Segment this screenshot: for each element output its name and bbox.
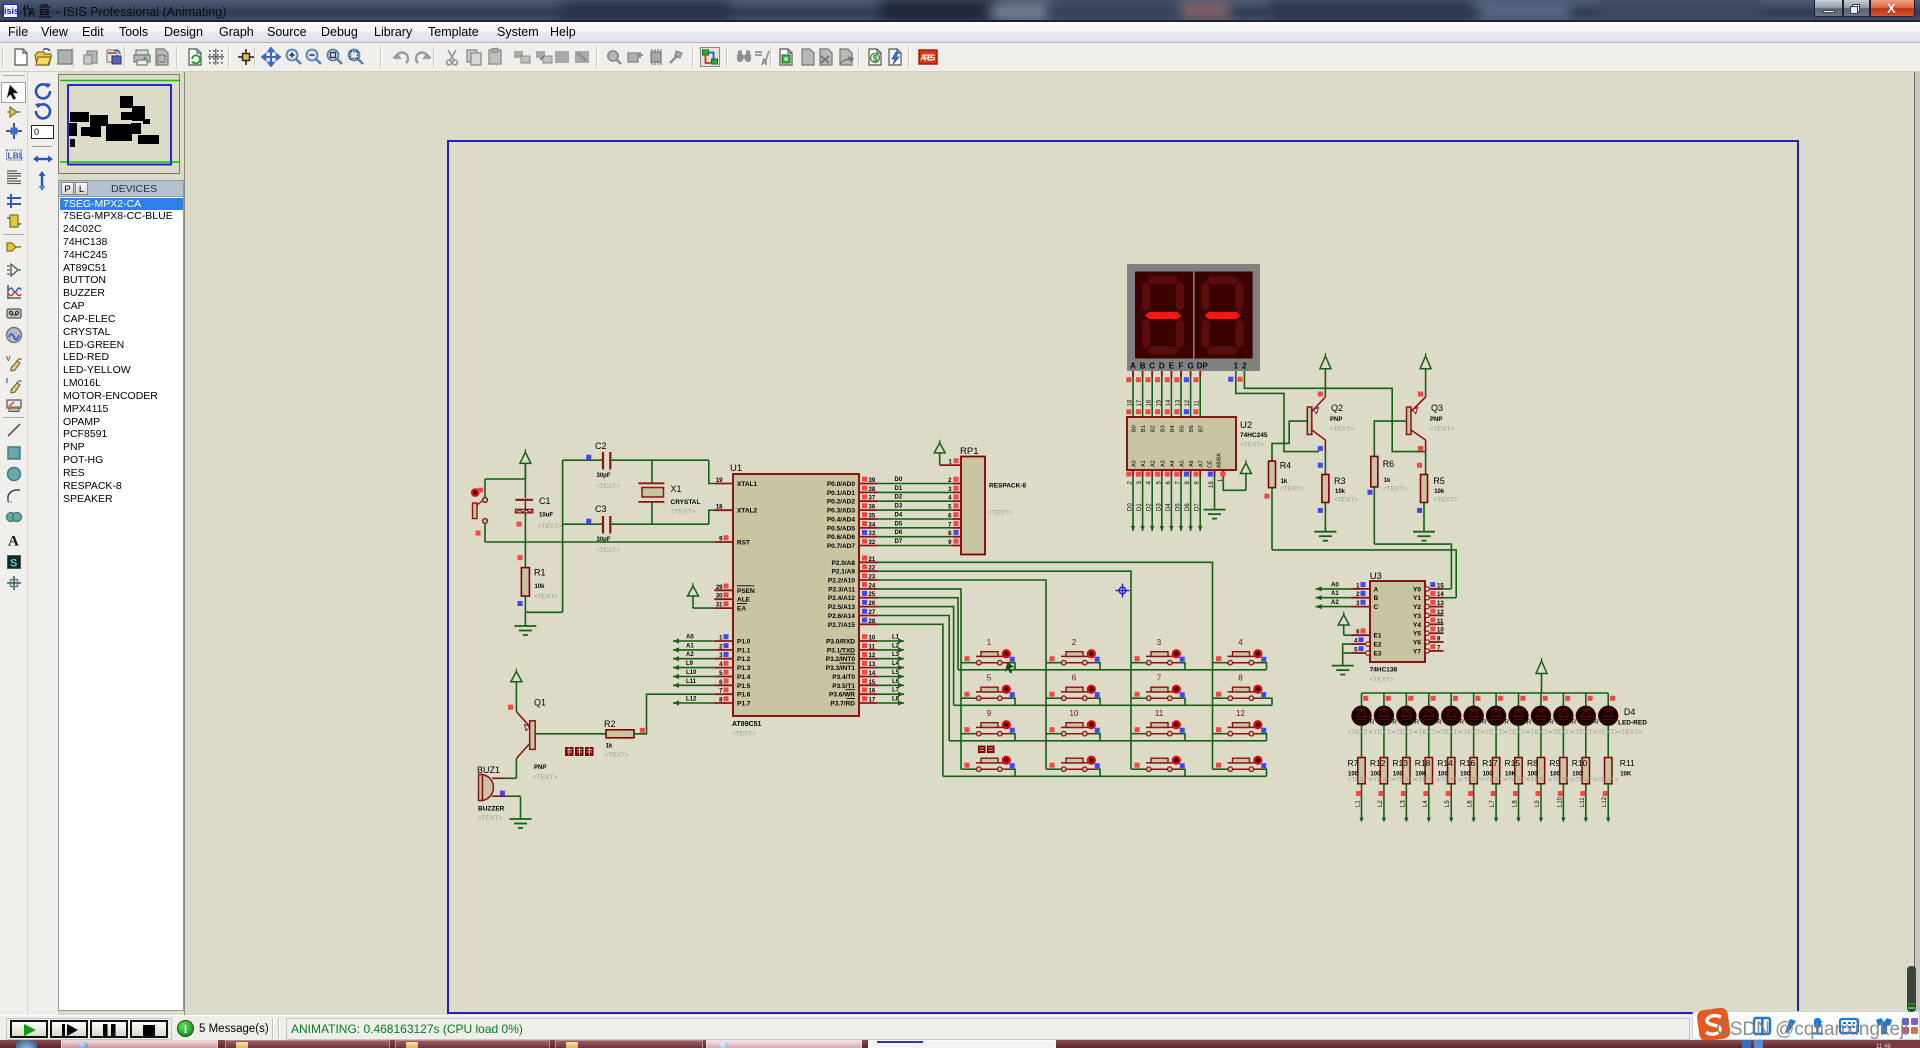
buffer U2 74HC245 body bbox=[1127, 417, 1252, 470]
svg-text:13: 13 bbox=[869, 662, 876, 668]
svg-text:<TEXT>: <TEXT> bbox=[478, 815, 502, 822]
svg-text:L3: L3 bbox=[1400, 800, 1406, 807]
svg-text:BUZ1: BUZ1 bbox=[477, 765, 500, 775]
svg-text:P0.7/AD7: P0.7/AD7 bbox=[827, 543, 856, 550]
svg-text:D: D bbox=[1159, 362, 1165, 371]
label C3 bbox=[595, 504, 620, 554]
svg-text:D5: D5 bbox=[1176, 503, 1182, 511]
svg-text:A: A bbox=[1374, 586, 1379, 593]
svg-text:37: 37 bbox=[869, 496, 876, 502]
svg-text:R15: R15 bbox=[1505, 758, 1521, 768]
svg-text:30pF: 30pF bbox=[597, 473, 611, 479]
svg-text:10: 10 bbox=[1437, 628, 1444, 634]
svg-text:28: 28 bbox=[869, 619, 876, 625]
svg-text:35: 35 bbox=[869, 514, 876, 520]
svg-text:B2: B2 bbox=[1151, 425, 1157, 432]
label X1 bbox=[671, 484, 701, 516]
svg-text:38: 38 bbox=[869, 487, 876, 493]
label R3 bbox=[1334, 476, 1358, 504]
power terminal VCC (reset) bbox=[520, 449, 531, 479]
svg-text:9: 9 bbox=[987, 709, 992, 718]
svg-text:R16: R16 bbox=[1460, 758, 1476, 768]
svg-text:11: 11 bbox=[869, 644, 876, 650]
svg-text:<TEXT>: <TEXT> bbox=[1348, 777, 1372, 784]
svg-text:30pF: 30pF bbox=[597, 537, 611, 543]
svg-text:EA: EA bbox=[737, 606, 746, 613]
label Q3 bbox=[1430, 403, 1454, 433]
svg-text:-R: -R bbox=[1525, 720, 1532, 726]
LED array labels bbox=[1348, 720, 1635, 784]
svg-text:10: 10 bbox=[869, 636, 876, 642]
svg-text:A5: A5 bbox=[1180, 460, 1186, 467]
svg-text:<TEXT>: <TEXT> bbox=[1460, 777, 1484, 784]
svg-text:D5: D5 bbox=[895, 521, 903, 527]
svg-text:-R: -R bbox=[1592, 720, 1599, 726]
svg-text:D3: D3 bbox=[1156, 503, 1162, 511]
svg-text:A3: A3 bbox=[1160, 460, 1166, 467]
svg-text:<TEXT>: <TEXT> bbox=[533, 774, 557, 781]
svg-text:P1.1: P1.1 bbox=[737, 647, 751, 654]
P3 net-label wires L1-L8 bbox=[878, 635, 904, 706]
svg-text:X1: X1 bbox=[671, 484, 682, 494]
svg-text:R5: R5 bbox=[1433, 476, 1445, 486]
svg-text:18: 18 bbox=[1128, 399, 1134, 406]
svg-text:<TEXT>: <TEXT> bbox=[1549, 777, 1573, 784]
svg-text:27: 27 bbox=[869, 610, 876, 616]
svg-text:<TEXT>: <TEXT> bbox=[1415, 729, 1439, 736]
svg-text:L5: L5 bbox=[1445, 800, 1451, 807]
7seg bottom labels bbox=[1130, 362, 1247, 371]
svg-text:A0: A0 bbox=[1132, 460, 1138, 467]
svg-text:<TEXT>: <TEXT> bbox=[1240, 442, 1264, 449]
svg-text:P2.5/A13: P2.5/A13 bbox=[828, 604, 855, 611]
svg-text:<TEXT>: <TEXT> bbox=[1505, 777, 1529, 784]
svg-text:12: 12 bbox=[1437, 610, 1444, 616]
svg-text:18: 18 bbox=[716, 505, 723, 511]
svg-text:P2.7/A15: P2.7/A15 bbox=[828, 622, 855, 629]
svg-text:12: 12 bbox=[1236, 709, 1245, 718]
svg-text:CE: CE bbox=[1208, 460, 1214, 468]
svg-text:BUZZER: BUZZER bbox=[478, 806, 505, 813]
svg-text:<TEXT>: <TEXT> bbox=[1415, 777, 1439, 784]
svg-text:14: 14 bbox=[869, 671, 876, 677]
label R6 bbox=[1383, 459, 1407, 493]
wire RST net bbox=[485, 542, 714, 560]
svg-text:74HC138: 74HC138 bbox=[1370, 667, 1398, 674]
svg-text:F: F bbox=[1179, 362, 1184, 371]
svg-text:XTAL2: XTAL2 bbox=[737, 508, 757, 515]
svg-text:Y6: Y6 bbox=[1413, 640, 1421, 647]
svg-text:8: 8 bbox=[1238, 674, 1243, 683]
svg-text:E3: E3 bbox=[1374, 651, 1382, 658]
7seg digit 2 segments bbox=[1202, 277, 1249, 356]
resistor R1 10k bbox=[521, 542, 529, 626]
svg-text:D6: D6 bbox=[1185, 503, 1191, 511]
label AT89C51 bbox=[732, 721, 762, 738]
svg-text:CRYSTAL: CRYSTAL bbox=[671, 499, 701, 506]
wire P1.6 to R2 bbox=[634, 694, 714, 734]
svg-text:-R: -R bbox=[1570, 720, 1577, 726]
svg-text:P3.7/RD: P3.7/RD bbox=[830, 701, 855, 708]
svg-text:R10: R10 bbox=[1572, 758, 1588, 768]
svg-text:L2: L2 bbox=[892, 643, 900, 649]
label Q2 bbox=[1330, 403, 1354, 433]
svg-text:Y1: Y1 bbox=[1413, 595, 1421, 602]
label 74HC138 bbox=[1370, 667, 1398, 684]
wire U3 Y0 up bbox=[1444, 588, 1452, 590]
svg-text:R2: R2 bbox=[604, 719, 616, 729]
svg-text:ARES: ARES bbox=[920, 54, 936, 63]
svg-text:B7: B7 bbox=[1199, 425, 1205, 432]
svg-text:P1.2: P1.2 bbox=[737, 656, 751, 663]
svg-text:B5: B5 bbox=[1180, 425, 1186, 432]
svg-text:P0.0/AD0: P0.0/AD0 bbox=[827, 481, 856, 488]
svg-text:12: 12 bbox=[869, 653, 876, 659]
svg-text:P2.4/A12: P2.4/A12 bbox=[828, 595, 855, 602]
svg-text:<TEXT>: <TEXT> bbox=[1370, 729, 1394, 736]
text keypad-chinese bbox=[978, 746, 995, 754]
label RESPACK-8 bbox=[988, 483, 1026, 517]
svg-text:P0.3/AD3: P0.3/AD3 bbox=[827, 508, 856, 515]
svg-text:10k: 10k bbox=[1335, 489, 1346, 495]
svg-text:P2.6/A14: P2.6/A14 bbox=[828, 613, 855, 620]
label C1 bbox=[538, 496, 562, 530]
svg-text:25: 25 bbox=[869, 592, 876, 598]
svg-text:R3: R3 bbox=[1334, 476, 1346, 486]
ground (R5) bbox=[1413, 532, 1435, 541]
svg-text:A4: A4 bbox=[1170, 460, 1176, 467]
svg-text:<TEXT>: <TEXT> bbox=[1460, 729, 1484, 736]
svg-text:PSEN: PSEN bbox=[737, 588, 755, 595]
svg-text:<TEXT>: <TEXT> bbox=[1348, 729, 1372, 736]
buzzer BUZ1 bbox=[479, 775, 521, 820]
svg-text:-R: -R bbox=[1413, 720, 1420, 726]
svg-text:A0: A0 bbox=[686, 635, 694, 641]
sogou vertical widget at right edge bbox=[1907, 966, 1916, 1012]
power terminal VCC (Q1) bbox=[511, 669, 522, 705]
svg-text:D4: D4 bbox=[895, 513, 903, 519]
svg-text:Q1: Q1 bbox=[534, 698, 546, 708]
svg-text:R9: R9 bbox=[1549, 758, 1560, 768]
svg-text:<TEXT>: <TEXT> bbox=[1594, 777, 1618, 784]
U2 AB/BA pin to VCC bbox=[1217, 453, 1252, 491]
resistor R2 1k bbox=[606, 728, 647, 738]
svg-text:L6: L6 bbox=[1468, 800, 1474, 807]
svg-text:AB/BA: AB/BA bbox=[1217, 453, 1223, 468]
svg-text:<TEXT>: <TEXT> bbox=[1482, 777, 1506, 784]
svg-text:P0.5/AD5: P0.5/AD5 bbox=[827, 525, 856, 532]
label 74HC245 bbox=[1240, 432, 1268, 449]
svg-text:L4: L4 bbox=[1423, 800, 1429, 807]
svg-text:P3.3/INT1: P3.3/INT1 bbox=[826, 665, 856, 672]
svg-text:L12: L12 bbox=[686, 697, 697, 703]
power terminal VCC (Q2) bbox=[1320, 353, 1331, 392]
svg-text:13: 13 bbox=[1176, 399, 1182, 406]
svg-text:PNP: PNP bbox=[1430, 417, 1442, 423]
LED array D4 columns with resistors bbox=[1352, 693, 1618, 823]
svg-text:23: 23 bbox=[869, 575, 876, 581]
svg-text:P3.6/WR: P3.6/WR bbox=[829, 692, 855, 699]
svg-text:<TEXT>: <TEXT> bbox=[1392, 729, 1416, 736]
svg-text:C1: C1 bbox=[539, 496, 551, 506]
LED rail wire bbox=[1362, 692, 1609, 694]
svg-text:<TEXT>: <TEXT> bbox=[1383, 486, 1407, 493]
decoder U3 74HC138 body bbox=[1370, 571, 1425, 662]
svg-text:1k: 1k bbox=[1281, 479, 1288, 485]
svg-text:DP: DP bbox=[1197, 362, 1209, 371]
svg-text:L12: L12 bbox=[1602, 796, 1608, 807]
svg-text:A1: A1 bbox=[686, 643, 694, 649]
svg-text:36: 36 bbox=[869, 505, 876, 511]
svg-text:P1.0: P1.0 bbox=[737, 639, 751, 646]
label R5 bbox=[1433, 476, 1457, 504]
mcu U1 AT89C51 body bbox=[730, 463, 859, 716]
svg-text:P2.3/A11: P2.3/A11 bbox=[828, 586, 855, 593]
svg-text:Y3: Y3 bbox=[1413, 613, 1421, 620]
svg-text:<TEXT>: <TEXT> bbox=[732, 731, 756, 738]
svg-text:L7: L7 bbox=[892, 688, 900, 694]
svg-text:P0.6/AD6: P0.6/AD6 bbox=[827, 534, 856, 541]
power terminal VCC (LED rail) bbox=[1536, 658, 1547, 693]
ground (buzzer) bbox=[510, 819, 532, 828]
svg-text:A0: A0 bbox=[1331, 582, 1339, 588]
svg-text:-R: -R bbox=[1503, 720, 1510, 726]
power terminal VCC (U3 E1) bbox=[1338, 612, 1351, 636]
power terminal VCC (Q3) bbox=[1420, 353, 1431, 392]
svg-text:14: 14 bbox=[1166, 399, 1172, 406]
svg-text:Y4: Y4 bbox=[1413, 622, 1421, 629]
svg-text:A: A bbox=[1130, 362, 1136, 371]
transistor Q2 PNP bbox=[1272, 392, 1325, 462]
svg-text:P0.2/AD2: P0.2/AD2 bbox=[827, 499, 856, 506]
7seg digit 1 segments bbox=[1142, 277, 1189, 356]
svg-text:$: $ bbox=[873, 54, 878, 64]
svg-text:L5: L5 bbox=[892, 670, 900, 676]
svg-text:26: 26 bbox=[869, 601, 876, 607]
svg-text:E2: E2 bbox=[1374, 642, 1382, 649]
wire R4 to U3 Y1 bbox=[1272, 550, 1456, 598]
svg-text:24: 24 bbox=[869, 583, 876, 589]
svg-text:12: 12 bbox=[1185, 399, 1191, 406]
svg-text:17: 17 bbox=[1137, 399, 1143, 406]
sogou input bar + watermark bbox=[1692, 1011, 1920, 1040]
svg-text:LBL: LBL bbox=[8, 151, 24, 161]
wire R6 to U3 Y0 bbox=[1374, 544, 1451, 589]
svg-text:C3: C3 bbox=[595, 504, 607, 514]
power terminal VCC (RP1) bbox=[934, 440, 945, 465]
svg-text:P3.2/INT0: P3.2/INT0 bbox=[826, 656, 856, 663]
capacitor C3 30pF bbox=[563, 510, 715, 533]
7seg display frame bbox=[1127, 264, 1260, 371]
svg-text:30: 30 bbox=[716, 594, 723, 600]
svg-text:C2: C2 bbox=[595, 441, 607, 451]
text buzzer-chinese bbox=[565, 747, 594, 756]
svg-text:2: 2 bbox=[1072, 638, 1077, 647]
svg-text:A2: A2 bbox=[1331, 600, 1339, 606]
svg-text:L2: L2 bbox=[1378, 800, 1384, 807]
svg-text:E1: E1 bbox=[1374, 633, 1382, 640]
svg-text:G: G bbox=[1187, 362, 1193, 371]
origin marker bbox=[1116, 584, 1130, 598]
svg-text:1: 1 bbox=[1234, 362, 1239, 371]
svg-text:D4: D4 bbox=[1624, 707, 1636, 717]
svg-text:E: E bbox=[1169, 362, 1175, 371]
svg-text:14: 14 bbox=[1437, 592, 1444, 598]
svg-text:R18: R18 bbox=[1415, 758, 1431, 768]
resistor R6 1k bbox=[1368, 456, 1378, 544]
svg-text:22: 22 bbox=[869, 566, 876, 572]
svg-text:D7: D7 bbox=[895, 539, 903, 545]
svg-text:33: 33 bbox=[869, 531, 876, 537]
transistor Q1 PNP bbox=[508, 705, 606, 779]
svg-text:1k: 1k bbox=[1384, 478, 1391, 484]
svg-text:16: 16 bbox=[1147, 399, 1153, 406]
svg-text:L9: L9 bbox=[686, 661, 694, 667]
svg-text:-R: -R bbox=[1435, 720, 1442, 726]
svg-text:R6: R6 bbox=[1383, 459, 1395, 469]
svg-text:P1.3: P1.3 bbox=[737, 665, 751, 672]
svg-text:RST: RST bbox=[737, 540, 750, 547]
svg-text:R12: R12 bbox=[1370, 758, 1386, 768]
svg-text:1: 1 bbox=[987, 638, 992, 647]
svg-text:10K: 10K bbox=[1620, 772, 1632, 778]
svg-text:<TEXT>: <TEXT> bbox=[596, 483, 620, 490]
svg-text:ALE: ALE bbox=[737, 597, 751, 604]
svg-text:<TEXT>: <TEXT> bbox=[1430, 426, 1454, 433]
svg-text:D4: D4 bbox=[1166, 503, 1172, 511]
svg-text:B: B bbox=[1140, 362, 1146, 371]
svg-text:<TEXT>: <TEXT> bbox=[1437, 729, 1461, 736]
svg-text:29: 29 bbox=[716, 585, 723, 591]
sheet border bbox=[448, 141, 1798, 1013]
svg-text:<TEXT>: <TEXT> bbox=[1549, 729, 1573, 736]
svg-text:L10: L10 bbox=[1557, 796, 1563, 807]
svg-text:13: 13 bbox=[1437, 601, 1444, 607]
svg-text:B0: B0 bbox=[1132, 425, 1138, 432]
wire caps-ground branch bbox=[525, 460, 562, 612]
svg-text:-R: -R bbox=[1368, 720, 1375, 726]
label Q1 bbox=[533, 698, 557, 782]
svg-text:Y7: Y7 bbox=[1413, 648, 1421, 655]
svg-text:XTAL1: XTAL1 bbox=[737, 481, 757, 488]
svg-text:3: 3 bbox=[1157, 638, 1162, 647]
svg-text:D0: D0 bbox=[1128, 503, 1134, 511]
resistor R4 1k bbox=[1264, 461, 1275, 550]
svg-text:L1: L1 bbox=[1356, 800, 1362, 807]
capacitor C1 10uF bbox=[515, 500, 533, 542]
svg-text:D2: D2 bbox=[895, 495, 903, 501]
svg-text:A: A bbox=[761, 57, 768, 67]
resistor pack RP1 body+pins bbox=[940, 446, 985, 555]
ground (R3) bbox=[1314, 532, 1336, 541]
label BUZ1 bbox=[477, 765, 505, 822]
U3 address inputs A B C bbox=[1316, 582, 1379, 611]
svg-text:6: 6 bbox=[1072, 674, 1077, 683]
svg-text:R14: R14 bbox=[1437, 758, 1453, 768]
svg-text:P1.5: P1.5 bbox=[737, 683, 751, 690]
svg-text:-R: -R bbox=[1390, 720, 1397, 726]
svg-text:31: 31 bbox=[716, 603, 723, 609]
svg-text:R13: R13 bbox=[1392, 758, 1408, 768]
svg-text:A1: A1 bbox=[1141, 460, 1147, 467]
svg-text:21: 21 bbox=[869, 557, 876, 563]
label C2 bbox=[595, 441, 620, 490]
svg-text:-R: -R bbox=[1547, 720, 1554, 726]
svg-text:5: 5 bbox=[987, 674, 992, 683]
svg-text:PNP: PNP bbox=[534, 765, 546, 771]
label D4 LED-RED bbox=[1618, 707, 1647, 736]
svg-text:P0.1/AD1: P0.1/AD1 bbox=[827, 490, 856, 497]
svg-text:39: 39 bbox=[869, 478, 876, 484]
svg-text:L11: L11 bbox=[1580, 797, 1586, 807]
svg-text:11: 11 bbox=[1155, 709, 1164, 718]
U3 outputs Y0-Y7 bbox=[1413, 582, 1444, 655]
transistor Q3 PNP bbox=[1374, 392, 1425, 457]
svg-text:L10: L10 bbox=[686, 670, 697, 676]
wire button-top to C1 top bbox=[485, 463, 525, 498]
resistor R5 10k bbox=[1417, 452, 1428, 532]
svg-text:P2.1/A9: P2.1/A9 bbox=[832, 569, 856, 576]
svg-text:Y2: Y2 bbox=[1413, 604, 1421, 611]
svg-text:Y5: Y5 bbox=[1413, 631, 1421, 638]
svg-text:V: V bbox=[6, 356, 11, 363]
U2 pins and D-bus stubs bbox=[1126, 425, 1204, 531]
keypad row wires bbox=[943, 663, 1272, 777]
label R1 bbox=[518, 568, 559, 607]
P0 bus wires D0-D7 bbox=[878, 477, 953, 546]
svg-text:<TEXT>: <TEXT> bbox=[1437, 777, 1461, 784]
svg-text:C: C bbox=[1149, 362, 1155, 371]
label R4 bbox=[1280, 461, 1304, 493]
mcu U1 right pins bbox=[826, 477, 878, 708]
svg-text:L9: L9 bbox=[1535, 800, 1541, 807]
svg-text:<TEXT>: <TEXT> bbox=[1594, 729, 1618, 736]
svg-text:<TEXT>: <TEXT> bbox=[1433, 497, 1457, 504]
svg-text:10: 10 bbox=[1070, 709, 1079, 718]
svg-text:P1.6: P1.6 bbox=[737, 692, 751, 699]
svg-text:Q2: Q2 bbox=[1331, 403, 1343, 413]
svg-text:<TEXT>: <TEXT> bbox=[1482, 729, 1506, 736]
svg-text:32: 32 bbox=[869, 540, 876, 546]
svg-text:R11: R11 bbox=[1620, 758, 1635, 768]
svg-text:11: 11 bbox=[1437, 619, 1444, 625]
svg-text:<TEXT>: <TEXT> bbox=[1370, 777, 1394, 784]
svg-text:D2: D2 bbox=[1147, 503, 1153, 511]
ground (U3) bbox=[1332, 666, 1354, 675]
svg-text:D7: D7 bbox=[1195, 503, 1201, 511]
svg-text:B3: B3 bbox=[1160, 425, 1166, 432]
svg-text:U2: U2 bbox=[1240, 420, 1252, 431]
svg-text:D1: D1 bbox=[895, 486, 903, 492]
svg-text:15: 15 bbox=[1437, 583, 1444, 589]
svg-text:<TEXT>: <TEXT> bbox=[605, 752, 629, 759]
svg-text:L4: L4 bbox=[892, 661, 900, 667]
svg-text:10k: 10k bbox=[1434, 489, 1445, 495]
svg-text:A1: A1 bbox=[1331, 591, 1339, 597]
svg-text:<TEXT>: <TEXT> bbox=[1334, 497, 1358, 504]
svg-text:L11: L11 bbox=[686, 679, 697, 685]
svg-text:-R: -R bbox=[1480, 720, 1487, 726]
svg-text:L3: L3 bbox=[892, 652, 900, 658]
svg-text:A7: A7 bbox=[1199, 460, 1205, 467]
svg-text:<TEXT>: <TEXT> bbox=[534, 594, 558, 601]
svg-text:17: 17 bbox=[869, 698, 876, 704]
U3 enable pins E1 E2 E3 bbox=[1343, 628, 1382, 665]
svg-text:P3.5/T1: P3.5/T1 bbox=[832, 683, 855, 690]
svg-text:P3.0/RXD: P3.0/RXD bbox=[826, 639, 855, 646]
svg-text:<TEXT>: <TEXT> bbox=[538, 523, 562, 530]
svg-text:D1: D1 bbox=[1137, 503, 1143, 511]
